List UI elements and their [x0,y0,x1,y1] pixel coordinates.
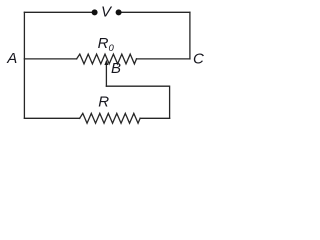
potentiometer R0 zigzag [77,54,137,64]
wire left vertical [23,12,25,118]
svg-text:C: C [193,50,204,67]
resistor R zigzag [80,113,141,123]
wire right vertical [189,12,191,59]
svg-text:R0: R0 [98,35,115,54]
voltmeter terminal dot left [92,9,98,15]
svg-text:V: V [101,3,113,20]
wire bottom-left segment [24,117,79,119]
wire wiper B to bottom-right corner [106,86,169,118]
wiper stem from arrow down [105,65,107,87]
wire bottom-right segment [140,117,170,119]
wiper arrowhead [104,60,108,65]
svg-text:R: R [98,93,109,110]
voltmeter terminal dot right [116,9,122,15]
wire top-right segment [121,11,190,13]
svg-text:A: A [6,50,17,67]
svg-text:B: B [111,60,121,77]
wire top-left segment [24,11,92,13]
wire middle-right (R0 to C) [137,58,190,60]
wire middle-left (A to R0) [24,58,76,60]
